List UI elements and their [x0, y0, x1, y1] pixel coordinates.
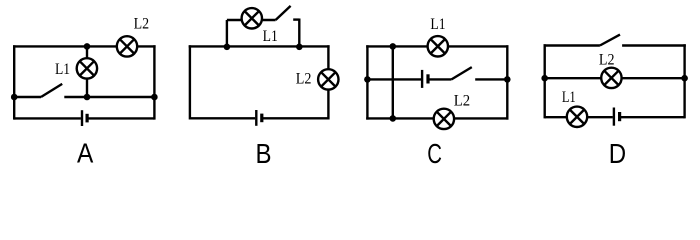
wire: C middle rail between battery and switch	[429, 78, 451, 80]
switch S1 (B): open blade	[276, 6, 291, 20]
battery B1 (C): short plate -	[426, 74, 429, 83]
wire: C left wall	[366, 45, 368, 119]
wire: C bottom rail	[366, 117, 508, 119]
wire: D top rail right (from fixed contact)	[622, 44, 686, 46]
lamp L1 (D) on bottom rail	[567, 107, 587, 127]
junction: C bottom rail / inner vertical	[390, 115, 397, 122]
svg-text:B: B	[256, 138, 272, 169]
lamp L1 (C)	[428, 36, 448, 56]
wire: B right wall	[327, 45, 329, 119]
svg-text:L2: L2	[134, 16, 150, 33]
battery B1 (D): short plate -	[618, 112, 621, 121]
wire: D top rail left (to switch)	[544, 44, 600, 46]
switch S1 (C): open blade	[452, 67, 472, 79]
junction: C left wall / middle rail	[364, 76, 371, 83]
wire: D middle rail	[545, 77, 685, 79]
junction: C right wall / middle rail	[504, 76, 511, 83]
svg-text:L2: L2	[599, 52, 615, 69]
battery B1 (D): long plate +	[613, 108, 615, 126]
junction: D right wall / middle rail	[681, 75, 688, 82]
wire: A right wall	[153, 45, 155, 119]
wire: B left wall	[189, 45, 191, 119]
junction: B top rail / left stub	[224, 44, 231, 51]
wire: C middle rail left (to battery)	[367, 78, 421, 80]
switch S1 (A): open blade	[41, 84, 62, 97]
junction: A middle rail / L1 branch	[84, 94, 91, 101]
wire: B branch wire to lamp L1	[227, 19, 276, 21]
wire: A middle rail left segment	[14, 96, 41, 98]
svg-text:L1: L1	[430, 16, 445, 33]
wire: D right wall	[683, 44, 685, 118]
wire: A middle rail right segment (fixed contact to right wall)	[64, 96, 154, 98]
switch S1 (D): open blade	[600, 35, 620, 46]
lamp L2 (C)	[434, 109, 454, 129]
lamp L2 (A)	[117, 36, 137, 56]
wire: A left wall	[13, 45, 15, 119]
junction: A right wall / middle rail	[151, 94, 158, 101]
svg-text:L1: L1	[263, 28, 278, 45]
wire: A bottom rail left (to battery)	[14, 117, 81, 119]
lamp L1 (B)	[242, 8, 262, 28]
battery B1 (B): short plate -	[260, 114, 263, 123]
wire: D bottom rail right (from battery)	[621, 116, 685, 118]
junction: C top rail / inner vertical	[390, 43, 397, 50]
battery B1 (A): long plate +	[81, 110, 83, 126]
svg-text:L1: L1	[55, 61, 70, 78]
svg-text:L2: L2	[296, 71, 312, 88]
wire: A top rail	[13, 45, 156, 47]
lamp L2 (D) on middle rail	[601, 68, 621, 88]
wire: D bottom rail left (to battery)	[545, 116, 613, 118]
wire: C top rail	[366, 45, 508, 47]
junction: A top rail / L1 branch	[84, 43, 91, 50]
battery B1 (B): long plate +	[255, 110, 257, 126]
wire: B top rail	[189, 45, 330, 47]
wire: C inner vertical branch	[392, 46, 394, 118]
battery B1 (A): short plate -	[85, 114, 88, 123]
junction: A left wall / middle rail	[11, 94, 18, 101]
wire: A bottom rail right (from battery)	[88, 117, 154, 119]
wire: C right wall	[506, 45, 508, 119]
wire: B bottom rail left (to battery)	[190, 117, 255, 119]
svg-text:L2: L2	[454, 93, 470, 110]
wire: B left stub up to lamp branch	[226, 20, 228, 46]
svg-text:C: C	[427, 138, 442, 169]
svg-text:L1: L1	[562, 89, 576, 106]
svg-text:A: A	[77, 137, 94, 168]
wire: A lamp L1 branch	[86, 46, 88, 97]
battery B1 (C): long plate +	[421, 70, 423, 88]
junction: B top rail / right stub	[296, 44, 303, 51]
svg-text:D: D	[609, 138, 626, 169]
wire: B switch fixed contact piece	[293, 18, 299, 20]
wire: C middle rail right (fixed contact to right wall)	[475, 78, 507, 80]
lamp L2 (B) on right wall	[318, 69, 338, 89]
wire: D left wall	[544, 44, 546, 118]
lamp L1 (A)	[77, 58, 97, 78]
wire: B right stub down to top rail	[298, 19, 300, 47]
wire: B bottom rail right (from battery)	[263, 117, 329, 119]
junction: D left wall / middle rail	[541, 75, 548, 82]
